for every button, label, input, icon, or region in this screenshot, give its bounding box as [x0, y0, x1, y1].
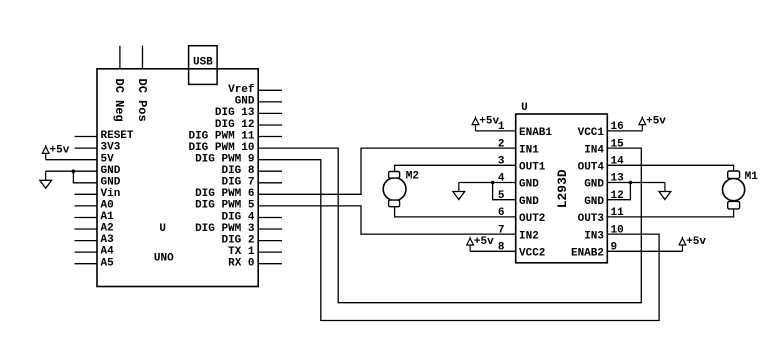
svg-text:+5v: +5v: [646, 116, 666, 128]
power +5v ENAB1: [475, 116, 477, 118]
svg-text:GND: GND: [101, 165, 121, 177]
arduino pin Vref stub: [258, 89, 282, 91]
wire OUT3 to M1 bottom: [607, 209, 733, 217]
svg-text:DIG 8: DIG 8: [221, 165, 254, 177]
svg-text:VCC1: VCC1: [578, 127, 605, 139]
svg-text:IN3: IN3: [584, 230, 604, 242]
arduino pin DIG 4 stub: [258, 217, 282, 219]
svg-text:USB: USB: [193, 56, 213, 68]
wire GND13 to GND12: [607, 183, 630, 200]
svg-text:DIG 4: DIG 4: [221, 211, 254, 223]
svg-text:+5v: +5v: [50, 145, 70, 157]
arduino pin A0 stub: [75, 205, 98, 207]
svg-text:+5v: +5v: [479, 116, 499, 128]
L293D U body: [516, 114, 608, 263]
svg-text:DIG PWM 3: DIG PWM 3: [195, 223, 255, 235]
wire OUT2 to M2 bottom: [395, 207, 516, 217]
wire GND4 to ground: [459, 182, 516, 184]
ground chip-right: [664, 183, 666, 192]
svg-text:DIG PWM 6: DIG PWM 6: [195, 188, 254, 200]
wire ENAB1 to +5v: [476, 130, 516, 132]
svg-text:+5v: +5v: [474, 236, 494, 248]
motor M2: [383, 172, 406, 207]
svg-text:IN1: IN1: [519, 144, 539, 156]
junction arduino GND: [72, 169, 76, 173]
arduino pin DIG PWM 3 stub: [258, 228, 282, 230]
svg-text:TX 1: TX 1: [228, 246, 255, 258]
svg-text:L293D: L293D: [555, 169, 570, 208]
arduino pin RX 0 stub: [258, 263, 282, 265]
arduino pin DIG 8 stub: [258, 170, 282, 172]
wire GND4 to GND5: [493, 183, 516, 200]
arduino pin 5V stub: [46, 159, 97, 161]
svg-text:OUT1: OUT1: [519, 162, 546, 174]
wire IN2 to DIG PWM 5: [258, 206, 516, 234]
svg-text:ENAB2: ENAB2: [571, 248, 604, 260]
wire IN3 to DIG PWM 9: [258, 160, 659, 321]
svg-text:DIG 7: DIG 7: [221, 177, 254, 189]
junction chip-right GND: [629, 181, 633, 185]
svg-text:DC Pos: DC Pos: [135, 79, 149, 122]
arduino pin A5 stub: [75, 263, 98, 265]
wire VCC2 to +5v: [470, 250, 516, 252]
svg-text:Vref: Vref: [228, 84, 255, 96]
wire VCC1 to +5v: [607, 130, 642, 132]
arduino pin Vin stub: [75, 193, 98, 195]
svg-text:GND: GND: [101, 176, 121, 188]
arduino pin DIG PWM 11 stub: [258, 136, 282, 138]
arduino pin DIG 7 stub: [258, 182, 282, 184]
svg-text:3V3: 3V3: [101, 142, 121, 154]
arduino pin A4 stub: [75, 251, 98, 253]
svg-text:A4: A4: [101, 246, 115, 258]
USB connector: [189, 46, 218, 85]
svg-text:DIG PWM 9: DIG PWM 9: [195, 154, 254, 166]
wire OUT1 to M2 top: [395, 165, 516, 171]
svg-text:A3: A3: [101, 234, 115, 246]
svg-text:OUT2: OUT2: [519, 213, 545, 225]
svg-text:DIG 12: DIG 12: [215, 119, 255, 131]
wire GND1 to GND2: [73, 171, 97, 183]
svg-text:+5v: +5v: [686, 236, 706, 248]
svg-text:RX 0: RX 0: [228, 258, 254, 270]
svg-text:5V: 5V: [101, 153, 115, 165]
svg-text:RESET: RESET: [101, 130, 134, 142]
svg-text:UNO: UNO: [154, 252, 174, 264]
arduino pin A3 stub: [75, 240, 98, 242]
power +5v VCC2: [469, 237, 471, 239]
svg-text:DIG PWM 11: DIG PWM 11: [188, 130, 254, 142]
svg-text:IN4: IN4: [584, 144, 604, 156]
ground chip-left: [458, 183, 460, 192]
wire OUT4 to M1 top: [607, 165, 733, 171]
svg-text:A1: A1: [101, 211, 115, 223]
svg-text:DC Neg: DC Neg: [112, 79, 126, 122]
svg-text:GND: GND: [519, 196, 539, 208]
svg-text:A0: A0: [101, 200, 114, 212]
wire ENAB2 to +5v: [607, 250, 682, 252]
svg-text:DIG 13: DIG 13: [215, 107, 255, 119]
pin DC Neg: [119, 46, 121, 69]
arduino pin DIG 12 stub: [258, 124, 282, 126]
svg-text:GND: GND: [235, 96, 255, 108]
wire GND13 to ground: [607, 182, 665, 184]
svg-text:A2: A2: [101, 223, 114, 235]
svg-text:DIG 2: DIG 2: [221, 234, 254, 246]
svg-text:DIG PWM 5: DIG PWM 5: [195, 200, 255, 212]
arduino pin GND stub: [73, 170, 97, 172]
arduino pin DIG 13 stub: [258, 112, 282, 114]
pin DC Pos: [142, 46, 144, 69]
wire GND1 to ground: [46, 170, 74, 172]
svg-text:M1: M1: [745, 171, 759, 183]
arduino pin TX 1 stub: [258, 251, 282, 253]
power +5v ENAB2: [681, 237, 683, 239]
arduino pin A1 stub: [75, 217, 98, 219]
svg-text:OUT4: OUT4: [578, 162, 605, 174]
svg-text:IN2: IN2: [519, 230, 539, 242]
arduino pin GND stub: [258, 101, 282, 103]
power +5v VCC1: [641, 116, 643, 118]
ground arduino: [45, 171, 47, 180]
junction chip-left GND: [491, 181, 495, 185]
svg-text:GND: GND: [519, 179, 539, 191]
arduino pin RESET stub: [75, 136, 98, 138]
svg-text:M2: M2: [406, 171, 419, 183]
svg-text:GND: GND: [584, 179, 604, 191]
svg-text:DIG PWM 10: DIG PWM 10: [188, 142, 254, 154]
svg-text:GND: GND: [584, 196, 604, 208]
arduino UNO U body: [97, 69, 258, 287]
power +5v arduino: [45, 145, 47, 147]
arduino pin 3V3 stub: [75, 147, 98, 149]
wire IN1 to DIG PWM 6: [258, 148, 516, 194]
arduino pin A2 stub: [75, 228, 98, 230]
svg-text:VCC2: VCC2: [519, 248, 545, 260]
svg-text:OUT3: OUT3: [578, 213, 605, 225]
svg-text:ENAB1: ENAB1: [519, 127, 552, 139]
svg-text:A5: A5: [101, 257, 115, 269]
svg-text:Vin: Vin: [101, 188, 121, 200]
svg-text:U: U: [521, 102, 528, 114]
wire IN4 to DIG PWM 10: [258, 148, 641, 303]
arduino pin DIG 2 stub: [258, 240, 282, 242]
motor M1: [723, 171, 745, 209]
svg-text:U: U: [159, 223, 166, 235]
